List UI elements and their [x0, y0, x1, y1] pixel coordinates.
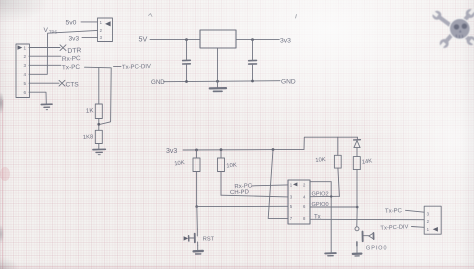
ground (regulator) [210, 88, 226, 91]
label RST [203, 236, 215, 242]
label 1K [86, 107, 95, 115]
node C1 ground [185, 80, 188, 83]
node R3 tap [195, 149, 198, 152]
svg-text:1K8: 1K8 [83, 134, 94, 141]
pin numbers of J3 [427, 212, 430, 232]
wire Tx-PC to J3 pin3 [406, 210, 425, 212]
label Tx-PC-DIV (output) [380, 224, 408, 231]
wire 3v3 rail [183, 148, 304, 151]
resistor R6 14K (GPIO0 pullup) [353, 148, 360, 170]
wire 5v0 [81, 21, 98, 23]
wire R2 to ground [98, 144, 100, 150]
svg-text:GPIO2: GPIO2 [312, 191, 329, 197]
logo skull and wrenches [429, 6, 474, 51]
svg-text:CTS: CTS [66, 81, 80, 88]
label 5v0 [66, 20, 77, 27]
label 10K (R3) [174, 160, 185, 167]
pin-1 marker of J3 [433, 227, 438, 232]
wire RST to ESP pin5 [197, 205, 288, 207]
pushbutton S2 GPIO0 [355, 227, 374, 246]
label Rx-PC [62, 55, 82, 63]
svg-text:3v3: 3v3 [166, 148, 177, 155]
node R4 tap [220, 148, 223, 151]
svg-text:10K: 10K [226, 163, 237, 170]
label GPIO0 (button) [366, 245, 387, 251]
svg-text:1: 1 [290, 182, 293, 187]
wire VCC to ESP pin7 [268, 150, 288, 219]
svg-text:Tx-PC: Tx-PC [62, 64, 81, 72]
svg-text:3: 3 [427, 212, 430, 217]
label Tx-PC (output) [385, 208, 403, 215]
wire Tx-PC continued [85, 66, 112, 69]
svg-text:DTR: DTR [67, 47, 81, 55]
no-connect X on DTR [60, 45, 66, 51]
connector J3 (output, 3-pin) [424, 206, 441, 234]
label CTS [66, 81, 80, 88]
svg-text:GND: GND [151, 79, 165, 86]
pin-1 marker of J2 [105, 21, 111, 26]
label Tx-PC-DIV [122, 64, 151, 71]
connector J2 (power header, 3-pin) [98, 18, 113, 42]
wire Tx-PC-DIV stub [114, 65, 122, 67]
svg-text:6: 6 [303, 204, 306, 209]
label GPIO0 (pin) [312, 202, 329, 208]
node C1 tap [185, 38, 188, 41]
label 14K [362, 158, 373, 165]
resistor R4 10K (CH-PD pullup) [218, 150, 225, 172]
wire R3 to RST node [196, 172, 198, 207]
capacitor C2 [249, 40, 257, 81]
label Tx-PC [62, 64, 81, 72]
svg-text:Tx-PC: Tx-PC [385, 208, 403, 215]
svg-text:2: 2 [100, 28, 103, 33]
svg-text:10K: 10K [174, 160, 185, 167]
wire ground rail [164, 81, 281, 82]
node C2 ground [251, 80, 254, 83]
label 3v3 (regulator out) [280, 38, 291, 45]
label Vtps [44, 27, 58, 35]
wire regulator center pin [217, 48, 219, 88]
svg-text:3v3: 3v3 [280, 38, 291, 45]
wire Tx-PC down to divider [98, 68, 100, 105]
ground (divider) [93, 149, 105, 154]
wire ESP pin2 to ground drop [310, 181, 331, 183]
wire R6 to GPIO0 [356, 170, 358, 207]
wire R1 to R2 [98, 119, 100, 131]
ground (J1) [41, 104, 52, 110]
node GPIO2/gnd cross [330, 195, 332, 197]
connector J1 (serial, 6-pin) [16, 44, 30, 98]
label GPIO2 [312, 191, 329, 197]
svg-text:5: 5 [290, 204, 293, 209]
ground (S1) [194, 251, 203, 254]
wire GPIO2 row [310, 195, 339, 197]
resistor R1 1K [95, 104, 102, 119]
pushbutton S1 RST [184, 229, 198, 245]
wire RST node to button S1 [196, 207, 199, 230]
ground (ESP) [325, 253, 336, 256]
no-connect X on CTS [59, 80, 65, 86]
svg-text:GND: GND [281, 79, 296, 86]
label CH-PD [230, 190, 250, 197]
resistor R2 1K8 [95, 130, 102, 143]
svg-text:Tx: Tx [314, 214, 321, 220]
wire DTR [29, 47, 60, 49]
svg-text:5: 5 [24, 81, 27, 86]
svg-text:V: V [44, 27, 49, 34]
pink smudge left [0, 167, 10, 181]
svg-text:Tx-PC-DIV: Tx-PC-DIV [122, 64, 151, 71]
resistor R3 10K (RST pullup) [193, 150, 200, 172]
pin numbers of J1 [24, 45, 27, 95]
svg-text:4: 4 [24, 72, 27, 77]
wire Tx row [310, 218, 424, 220]
svg-text:4: 4 [303, 195, 306, 200]
svg-text:CH-PD: CH-PD [230, 190, 250, 197]
wire R4 to CH-PD [220, 172, 222, 196]
svg-text:3: 3 [24, 63, 27, 68]
bottom paper edge line [0, 266, 474, 268]
label GND left [151, 79, 165, 86]
wire S1 to ground [197, 245, 199, 250]
wire 5V input [150, 39, 200, 41]
svg-text:1: 1 [427, 227, 430, 232]
svg-text:5v0: 5v0 [66, 20, 77, 27]
wire Tx-PC-DIV to J3 pin1 [412, 226, 425, 229]
wire pin6 to ground [29, 92, 46, 104]
ground (S2) [353, 254, 362, 256]
svg-text:2: 2 [24, 54, 27, 59]
svg-text:GPIO0: GPIO0 [312, 202, 329, 208]
svg-text:Tx-PC-DIV: Tx-PC-DIV [380, 224, 408, 231]
svg-text:RST: RST [203, 236, 215, 242]
module U2 ESP-01 header [288, 180, 310, 224]
label Rx-PC (ESP) [234, 183, 253, 190]
label GND right [281, 79, 296, 86]
svg-text:2: 2 [303, 182, 306, 187]
label Tx [314, 214, 321, 220]
svg-text:1: 1 [24, 45, 27, 50]
label 1K8 [83, 134, 94, 141]
svg-text:6: 6 [24, 90, 27, 95]
svg-text:1K: 1K [86, 107, 95, 115]
pin numbers of U2 left [290, 182, 293, 221]
svg-text:14K: 14K [362, 158, 373, 165]
wire R5 to GPIO2 [338, 168, 340, 196]
wire Rx-PC [29, 55, 61, 57]
label 10K (R4) [226, 163, 237, 170]
svg-text:3: 3 [290, 195, 293, 200]
stray pen tick [149, 14, 153, 17]
svg-text:TPS: TPS [49, 30, 57, 35]
capacitor C1 [183, 40, 191, 82]
wire GPIO0 to button S2 [356, 207, 358, 227]
diode D1 [354, 137, 361, 147]
pin numbers of U2 right [303, 182, 306, 221]
pin-1 marker of J1 [18, 45, 23, 49]
wire Rx-PC to ESP pin1 [252, 185, 289, 186]
label 5V [139, 35, 148, 44]
label 3v3 (J2) [69, 35, 80, 42]
wire Tx-PC [29, 64, 61, 66]
svg-text:3: 3 [100, 35, 103, 40]
node divider junction [97, 123, 100, 126]
svg-text:8: 8 [303, 216, 306, 221]
label 10K (R5) [315, 157, 326, 164]
wire GPIO0 row [310, 206, 357, 208]
node VCC drop tap [272, 148, 275, 151]
wire Tx-PC-DIV from junction [100, 68, 111, 124]
label DTR [67, 47, 81, 55]
regulator U1 [200, 30, 236, 48]
node RST junction [195, 205, 198, 208]
wire 3v3 riser to pullups [304, 137, 357, 149]
pin-1 marker of U2 [293, 182, 297, 186]
wire regulator output [236, 39, 279, 41]
svg-text:2: 2 [427, 219, 430, 224]
svg-text:Rx-PC: Rx-PC [234, 183, 253, 190]
svg-text:3v3: 3v3 [69, 35, 80, 42]
wire 3v3 to J2 [82, 37, 98, 39]
svg-text:1: 1 [100, 20, 103, 25]
svg-text:GPIO0: GPIO0 [366, 245, 387, 251]
wire S2 to ground [356, 246, 358, 253]
resistor R5 10K (GPIO2 pullup) [334, 137, 341, 168]
margin line [2, 100, 4, 269]
svg-text:10K: 10K [315, 157, 326, 164]
node GPIO0 junction [356, 206, 359, 209]
node C2 tap [251, 38, 254, 41]
stray apostrophe [296, 15, 297, 19]
wire ground drop vertical [330, 182, 332, 253]
node regulator ground [216, 80, 219, 83]
wire Vtps from pin 4 [29, 30, 98, 74]
wire CTS [29, 82, 59, 84]
label 3v3 (bottom rail) [166, 148, 177, 155]
svg-text:7: 7 [290, 216, 293, 221]
svg-text:Rx-PC: Rx-PC [62, 55, 82, 63]
svg-text:5V: 5V [139, 35, 148, 44]
wire CH-PD to ESP pin3 [221, 195, 288, 197]
pin numbers of J2 [100, 20, 103, 40]
